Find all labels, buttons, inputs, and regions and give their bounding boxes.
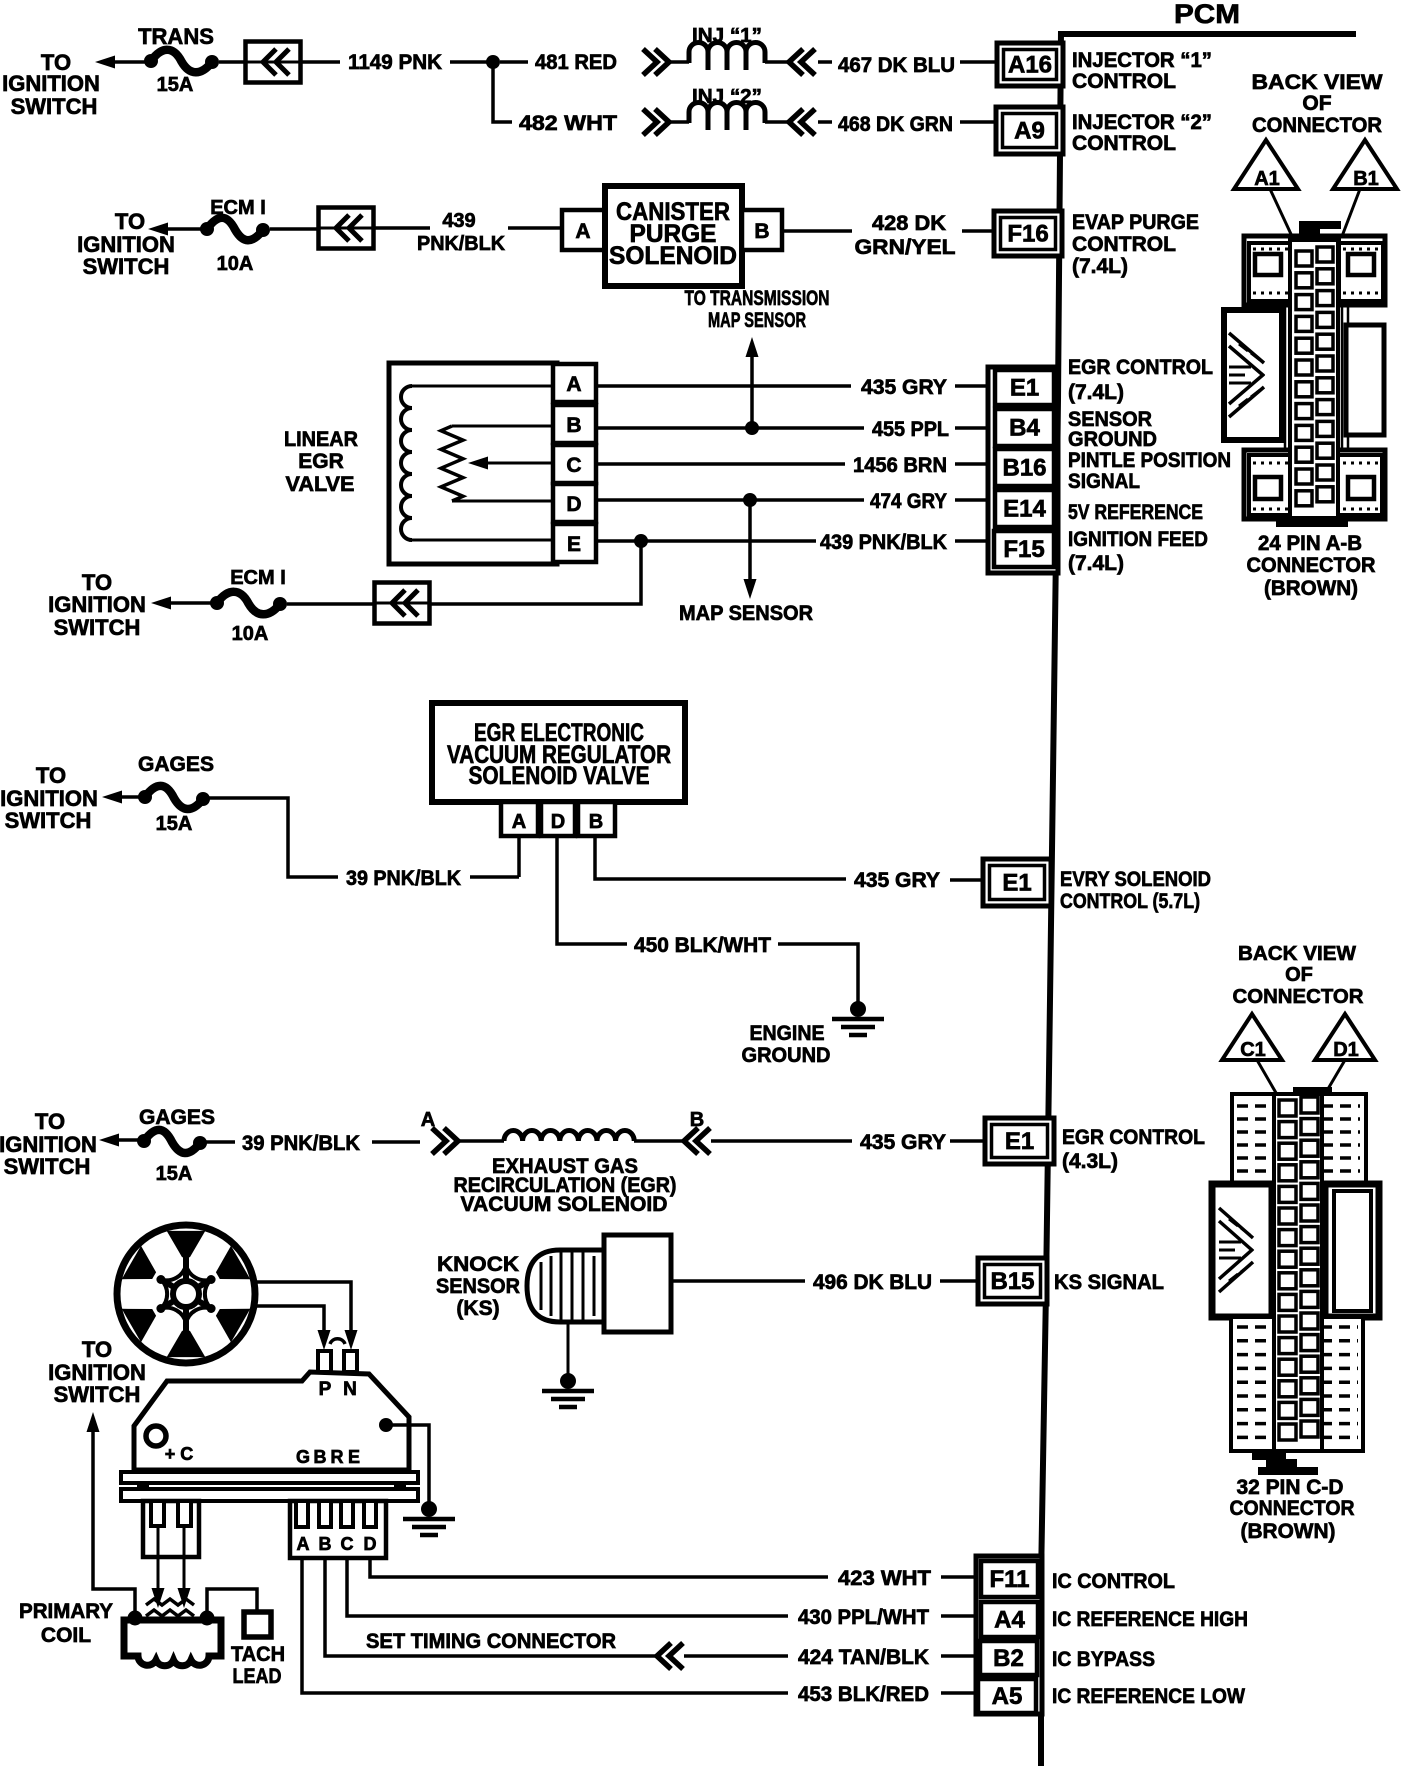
svg-text:GAGES: GAGES	[138, 753, 214, 776]
svg-text:SET TIMING CONNECTOR: SET TIMING CONNECTOR	[366, 1630, 616, 1653]
svg-text:A: A	[575, 220, 590, 243]
svg-text:GROUND: GROUND	[742, 1044, 831, 1067]
wire distributor to module pin N	[254, 1282, 351, 1336]
24 pin A-B connector drawing	[1224, 221, 1385, 527]
svg-text:SOLENOID: SOLENOID	[609, 242, 737, 270]
svg-text:B1: B1	[1353, 168, 1379, 190]
svg-text:CONTROL: CONTROL	[1072, 70, 1176, 93]
EVRV pin A	[501, 802, 538, 836]
svg-text:467 DK BLU: 467 DK BLU	[838, 54, 955, 77]
svg-text:INJECTOR “2”: INJECTOR “2”	[1072, 111, 1212, 134]
wire into INJ 1	[669, 60, 689, 64]
wire 481 RED	[500, 60, 528, 64]
svg-text:(7.4L): (7.4L)	[1072, 255, 1128, 278]
tach lead terminal	[244, 1612, 271, 1637]
svg-text:CONNECTOR: CONNECTOR	[1252, 114, 1382, 137]
svg-text:B15: B15	[990, 1268, 1034, 1295]
svg-text:IC CONTROL: IC CONTROL	[1052, 1570, 1175, 1593]
svg-text:(7.4L): (7.4L)	[1068, 381, 1124, 404]
PCM pin B16	[995, 449, 1054, 486]
arrow to ignition switch row 4	[102, 791, 122, 804]
svg-text:15A: 15A	[156, 813, 193, 835]
32 pin C-D connector drawing	[1212, 1087, 1379, 1475]
PCM pin F15	[994, 531, 1054, 567]
svg-text:(BROWN): (BROWN)	[1264, 577, 1358, 600]
ignition module body	[134, 1372, 409, 1470]
connector chevron injector 2 right	[765, 120, 791, 124]
svg-text:39 PNK/BLK: 39 PNK/BLK	[346, 867, 461, 890]
svg-text:E1: E1	[1010, 375, 1039, 402]
svg-text:1149 PNK: 1149 PNK	[348, 51, 442, 74]
connector chevron injector 1 left	[643, 49, 657, 75]
module pin N	[344, 1351, 357, 1372]
svg-text:32 PIN C-D: 32 PIN C-D	[1237, 1476, 1344, 1499]
wire coil primary - lead	[183, 1526, 186, 1596]
svg-text:SIGNAL: SIGNAL	[1068, 470, 1140, 493]
callout triangle B1	[1333, 140, 1397, 189]
svg-text:435 GRY: 435 GRY	[860, 1131, 946, 1154]
wire 428 DK GRN/YEL	[782, 229, 852, 233]
svg-text:CONTROL: CONTROL	[1072, 233, 1176, 256]
module ground tap	[379, 1418, 393, 1432]
PCM pin F11	[981, 1561, 1038, 1597]
PCM pin A5	[978, 1679, 1036, 1713]
svg-text:PCM: PCM	[1174, 0, 1240, 29]
wire 439 PNK/BLK (ignition feed)	[596, 539, 816, 543]
svg-text:A9: A9	[1014, 118, 1045, 145]
wire 435 GRY (5.7L)	[595, 836, 846, 879]
wire 439 PNK/BLK (canister)	[373, 226, 430, 230]
svg-text:424 TAN/BLK: 424 TAN/BLK	[798, 1646, 929, 1669]
wire 467 DK BLU	[818, 60, 832, 64]
svg-text:(BROWN): (BROWN)	[1241, 1520, 1336, 1543]
svg-text:G: G	[296, 1447, 310, 1467]
wire into INJ 2	[669, 120, 689, 124]
svg-text:LINEAR: LINEAR	[284, 428, 358, 451]
engine ground symbol	[850, 1001, 866, 1017]
callout triangle A1	[1234, 140, 1298, 189]
svg-text:PRIMARY: PRIMARY	[19, 1600, 113, 1623]
svg-text:430 PPL/WHT: 430 PPL/WHT	[798, 1606, 929, 1629]
arrow to ignition switch row 5	[99, 1134, 119, 1147]
svg-text:24 PIN A-B: 24 PIN A-B	[1258, 532, 1362, 555]
svg-text:1456 BRN: 1456 BRN	[853, 454, 947, 477]
svg-text:IC REFERENCE HIGH: IC REFERENCE HIGH	[1052, 1608, 1248, 1631]
wire 496 DK BLU	[671, 1279, 805, 1283]
module mounting plate upper	[121, 1472, 418, 1483]
EGR valve pin A	[553, 364, 596, 402]
svg-text:OF: OF	[1285, 964, 1313, 986]
svg-text:435 GRY: 435 GRY	[854, 869, 940, 892]
svg-text:BACK VIEW: BACK VIEW	[1238, 943, 1356, 965]
svg-text:PNK/BLK: PNK/BLK	[417, 233, 506, 255]
wire fuse to connector row 2	[270, 227, 320, 231]
svg-text:SWITCH: SWITCH	[4, 1154, 91, 1179]
PCM pin A9	[996, 107, 1063, 154]
svg-text:B: B	[589, 811, 603, 833]
svg-text:PINTLE POSITION: PINTLE POSITION	[1068, 449, 1231, 472]
PCM pin E1 (7.4L)	[995, 370, 1054, 405]
module connector ABCD block	[290, 1501, 386, 1558]
wire EGR zigzag to pin D	[452, 500, 553, 503]
leader line C1	[1257, 1060, 1279, 1098]
EVRV pin B	[578, 802, 615, 836]
svg-text:EGR CONTROL: EGR CONTROL	[1062, 1126, 1205, 1149]
wire 39 PNK/BLK (EVRV)	[209, 798, 338, 877]
svg-text:COIL: COIL	[41, 1624, 91, 1647]
wire fuse to arrow row 3	[168, 601, 217, 605]
wire to ignition switch row 1	[110, 60, 152, 64]
wire ignition feed to ECM I fuse	[428, 541, 641, 604]
svg-text:P: P	[319, 1379, 332, 1400]
svg-text:GROUND: GROUND	[1068, 428, 1157, 451]
arrow to ignition switch row 2	[148, 223, 168, 236]
connector C100 row 1	[246, 42, 301, 83]
svg-text:15A: 15A	[157, 74, 194, 96]
svg-text:CONNECTOR: CONNECTOR	[1247, 554, 1376, 577]
svg-text:IGNITION: IGNITION	[2, 71, 100, 96]
svg-text:B: B	[566, 414, 581, 437]
svg-text:TO: TO	[115, 209, 145, 234]
EGR wiper arrow to pin C	[482, 462, 553, 465]
svg-text:SWITCH: SWITCH	[11, 94, 98, 119]
wire 1149 PNK	[300, 60, 340, 64]
PCM pin B4	[995, 409, 1054, 446]
primary coil	[124, 1620, 221, 1666]
EGR pintle resistor zigzag	[441, 426, 463, 501]
svg-text:D: D	[551, 811, 565, 833]
callout triangle C1	[1222, 1014, 1282, 1060]
svg-text:MAP SENSOR: MAP SENSOR	[679, 602, 813, 625]
svg-text:D: D	[566, 493, 581, 516]
wire 468 DK GRN	[818, 120, 832, 124]
svg-text:C: C	[341, 1534, 354, 1554]
EGR electronic vacuum regulator solenoid valve	[432, 703, 685, 802]
wire 482 WHT branch	[493, 62, 512, 122]
pin A canister purge solenoid	[562, 210, 605, 250]
svg-text:482 WHT: 482 WHT	[519, 112, 617, 135]
svg-text:496 DK BLU: 496 DK BLU	[813, 1271, 932, 1294]
svg-text:E1: E1	[1002, 870, 1031, 897]
PCM connector group frame (IC rows)	[976, 1556, 1042, 1714]
wire 435 GRY (7.4L)	[596, 384, 851, 388]
svg-text:TO: TO	[36, 763, 66, 788]
svg-text:(4.3L): (4.3L)	[1062, 1150, 1118, 1173]
svg-text:SWITCH: SWITCH	[83, 254, 170, 279]
module mounting plate lower	[121, 1489, 418, 1501]
arrow to ignition switch row 6	[87, 1412, 100, 1432]
connector C100 row 3	[375, 583, 430, 624]
svg-text:39 PNK/BLK: 39 PNK/BLK	[242, 1132, 360, 1155]
svg-text:C1: C1	[1240, 1039, 1266, 1061]
PCM connector group frame (EGR rows)	[988, 367, 1058, 573]
svg-text:E: E	[567, 533, 581, 556]
wire EGR valve coil to pin A	[412, 385, 553, 388]
svg-text:TO TRANSMISSION: TO TRANSMISSION	[685, 287, 830, 310]
svg-text:A: A	[566, 373, 581, 396]
EGR valve pin D	[553, 484, 596, 522]
svg-text:CONNECTOR: CONNECTOR	[1230, 1497, 1355, 1520]
svg-text:E1: E1	[1005, 1128, 1034, 1155]
svg-text:A16: A16	[1008, 52, 1052, 79]
svg-text:IGNITION FEED: IGNITION FEED	[1068, 528, 1208, 551]
svg-text:TRANS: TRANS	[138, 24, 214, 49]
svg-text:15A: 15A	[156, 1163, 193, 1185]
svg-text:5V REFERENCE: 5V REFERENCE	[1068, 501, 1203, 524]
leader line D1	[1325, 1060, 1345, 1094]
svg-text:BACK VIEW: BACK VIEW	[1252, 71, 1383, 94]
svg-text:439 PNK/BLK: 439 PNK/BLK	[820, 531, 947, 554]
wire coil primary + lead	[157, 1526, 160, 1596]
PCM pin A16	[997, 43, 1063, 86]
svg-text:A: A	[512, 811, 526, 833]
svg-text:E14: E14	[1003, 496, 1046, 523]
svg-text:IC BYPASS: IC BYPASS	[1052, 1648, 1155, 1671]
wire 455 PPL	[596, 426, 864, 430]
wire connector to fuse row 3	[287, 602, 376, 606]
module pin P	[318, 1351, 331, 1372]
svg-text:EGR CONTROL: EGR CONTROL	[1068, 356, 1213, 379]
svg-text:10A: 10A	[217, 253, 254, 275]
svg-text:ENGINE: ENGINE	[750, 1022, 825, 1045]
wire 424 TAN/BLK	[325, 1558, 658, 1656]
wire 453 BLK/RED	[302, 1558, 788, 1693]
PCM pin E14	[995, 490, 1054, 527]
svg-text:B: B	[754, 220, 769, 243]
wire into EGR vacuum solenoid	[458, 1139, 504, 1143]
svg-text:VACUUM SOLENOID: VACUUM SOLENOID	[461, 1193, 668, 1216]
EGR valve pin C	[553, 445, 596, 483]
junction ignition feed splice	[634, 534, 648, 548]
svg-text:GAGES: GAGES	[139, 1106, 215, 1129]
module terminal O +C	[146, 1426, 166, 1446]
wire EGR valve coil to pin E	[412, 539, 553, 542]
distributor cap	[117, 1225, 255, 1363]
module connector left block	[143, 1501, 199, 1557]
svg-text:439: 439	[442, 210, 475, 232]
wire 1456 BRN	[596, 462, 845, 466]
svg-text:B4: B4	[1009, 415, 1040, 442]
svg-text:F16: F16	[1007, 221, 1048, 248]
PCM pin E1 (4.3L)	[985, 1118, 1054, 1164]
svg-text:B16: B16	[1002, 455, 1046, 482]
junction to transmission MAP sensor	[745, 421, 759, 435]
wire 474 GRY	[596, 498, 864, 502]
knock sensor KS	[527, 1235, 671, 1332]
wire module feed to ignition switch	[93, 1430, 135, 1614]
wire tach lead	[207, 1589, 257, 1615]
svg-text:TACH: TACH	[231, 1643, 285, 1666]
canister purge solenoid	[605, 186, 742, 286]
svg-text:SWITCH: SWITCH	[5, 808, 92, 833]
svg-text:D: D	[364, 1534, 377, 1554]
svg-text:OF: OF	[1302, 92, 1331, 115]
svg-text:GRN/YEL: GRN/YEL	[855, 236, 956, 259]
knock sensor ground	[567, 1322, 570, 1375]
svg-text:CONNECTOR: CONNECTOR	[1233, 986, 1365, 1008]
wire 435 GRY (4.3L)	[711, 1139, 852, 1143]
svg-text:ECM I: ECM I	[230, 567, 286, 589]
junction to MAP sensor	[743, 493, 757, 507]
wire distributor to module pin P	[254, 1306, 324, 1336]
svg-text:B2: B2	[993, 1645, 1024, 1672]
svg-text:A: A	[297, 1534, 310, 1554]
svg-text:455 PPL: 455 PPL	[872, 418, 949, 441]
svg-text:MAP SENSOR: MAP SENSOR	[708, 309, 806, 332]
svg-text:CONTROL (5.7L): CONTROL (5.7L)	[1060, 890, 1200, 913]
svg-text:428 DK: 428 DK	[872, 212, 946, 235]
svg-text:450 BLK/WHT: 450 BLK/WHT	[634, 934, 771, 957]
PCM pin B15	[978, 1258, 1047, 1304]
wire 423 WHT	[370, 1558, 828, 1577]
connector chevron injector 2 left	[643, 109, 657, 135]
PCM pin B2	[980, 1641, 1037, 1675]
wire EGR zigzag to pin B	[452, 425, 553, 428]
svg-text:F15: F15	[1003, 536, 1044, 563]
arrow to ignition switch row 3	[151, 597, 171, 610]
arrow to ignition switch row 1	[95, 56, 115, 69]
svg-text:EVAP PURGE: EVAP PURGE	[1072, 211, 1199, 234]
svg-text:A5: A5	[992, 1683, 1023, 1710]
PCM pin F16	[994, 211, 1062, 256]
leader line A1	[1270, 189, 1297, 247]
svg-text:435 GRY: 435 GRY	[861, 376, 947, 399]
wire 450 BLK/WHT	[557, 836, 627, 944]
svg-text:A1: A1	[1254, 168, 1280, 190]
svg-text:D1: D1	[1333, 1039, 1359, 1061]
junction splice injector feed	[486, 55, 500, 69]
svg-text:481 RED: 481 RED	[535, 51, 617, 74]
svg-text:453 BLK/RED: 453 BLK/RED	[798, 1683, 929, 1706]
svg-text:CONTROL: CONTROL	[1072, 132, 1176, 155]
svg-text:SOLENOID VALVE: SOLENOID VALVE	[469, 762, 650, 790]
svg-text:R: R	[331, 1447, 344, 1467]
EVRV pin D	[541, 802, 575, 836]
svg-text:IC REFERENCE LOW: IC REFERENCE LOW	[1052, 1685, 1245, 1708]
svg-text:SENSOR: SENSOR	[436, 1275, 520, 1298]
svg-text:EGR: EGR	[298, 450, 344, 473]
EGR vacuum solenoid coil	[504, 1131, 634, 1142]
callout triangle D1	[1315, 1014, 1375, 1060]
svg-text:E: E	[348, 1447, 360, 1467]
set timing connector chevron	[657, 1643, 671, 1669]
svg-text:KNOCK: KNOCK	[437, 1253, 519, 1276]
svg-text:KS SIGNAL: KS SIGNAL	[1054, 1271, 1164, 1294]
leader line B1	[1336, 189, 1360, 252]
svg-text:SWITCH: SWITCH	[54, 1382, 141, 1407]
svg-text:(KS): (KS)	[456, 1297, 499, 1320]
svg-text:LEAD: LEAD	[233, 1665, 282, 1688]
svg-text:EVRY SOLENOID: EVRY SOLENOID	[1060, 868, 1211, 891]
svg-text:TO: TO	[82, 1337, 112, 1362]
svg-text:(7.4L): (7.4L)	[1068, 552, 1124, 575]
svg-text:B: B	[319, 1534, 332, 1554]
svg-text:F11: F11	[989, 1566, 1029, 1593]
PCM left boundary line	[1041, 31, 1061, 1766]
svg-text:468 DK GRN: 468 DK GRN	[838, 113, 953, 136]
connector C100 row 2	[319, 208, 374, 249]
svg-text:SWITCH: SWITCH	[54, 615, 141, 640]
PCM top boundary line	[1059, 31, 1356, 37]
svg-text:A4: A4	[994, 1607, 1025, 1634]
svg-text:B: B	[314, 1447, 327, 1467]
PCM pin A4	[981, 1602, 1038, 1637]
wire fuse to connector row 1	[219, 60, 246, 64]
svg-text:C: C	[566, 454, 581, 477]
pin B canister purge solenoid	[742, 210, 782, 250]
svg-text:N: N	[343, 1379, 357, 1400]
connector chevron injector 1 right	[765, 60, 791, 64]
svg-text:+ C: + C	[165, 1444, 194, 1464]
svg-text:IGNITION: IGNITION	[48, 592, 146, 617]
PCM pin E1 (5.7L)	[983, 859, 1051, 906]
svg-text:10A: 10A	[232, 623, 269, 645]
wire 430 PPL/WHT	[347, 1558, 788, 1616]
wire to ignition switch row 2	[165, 227, 207, 231]
svg-text:VALVE: VALVE	[286, 473, 355, 496]
svg-text:474 GRY: 474 GRY	[870, 490, 947, 513]
svg-text:TO: TO	[35, 1109, 65, 1134]
junction primary coil tach	[200, 1611, 215, 1626]
EGR valve pin E	[553, 524, 596, 562]
svg-text:423 WHT: 423 WHT	[838, 1567, 931, 1590]
junction primary coil B+	[128, 1611, 143, 1626]
EGR valve pin B	[553, 405, 596, 443]
wire 39 PNK/BLK (4.3L)	[206, 1140, 235, 1144]
svg-text:INJECTOR “1”: INJECTOR “1”	[1072, 49, 1212, 72]
